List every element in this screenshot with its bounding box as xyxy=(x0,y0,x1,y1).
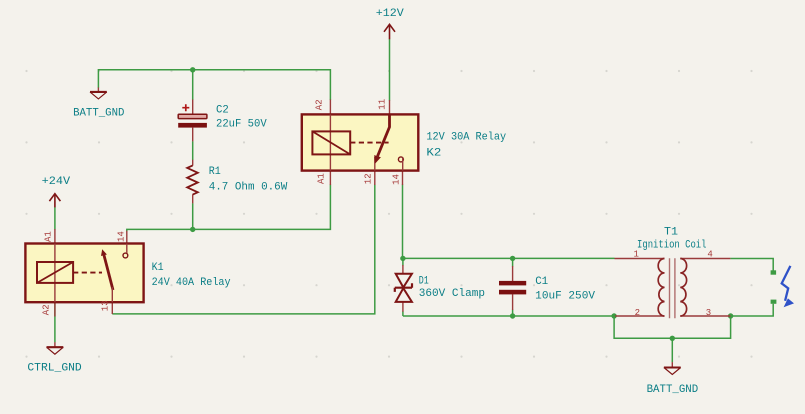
svg-text:K2: K2 xyxy=(426,148,441,160)
svg-text:Ignition Coil: Ignition Coil xyxy=(637,240,707,252)
svg-text:4: 4 xyxy=(707,249,712,259)
svg-text:T1: T1 xyxy=(664,227,678,239)
svg-text:10uF 250V: 10uF 250V xyxy=(535,290,595,302)
svg-text:A1: A1 xyxy=(43,231,53,242)
svg-text:11: 11 xyxy=(377,99,387,110)
svg-text:A2: A2 xyxy=(314,99,324,110)
svg-text:CTRL_GND: CTRL_GND xyxy=(27,363,82,375)
svg-text:D1: D1 xyxy=(419,276,429,288)
svg-text:BATT_GND: BATT_GND xyxy=(73,108,125,120)
svg-text:+24V: +24V xyxy=(42,176,71,188)
svg-text:A1: A1 xyxy=(316,173,326,184)
svg-text:C2: C2 xyxy=(216,104,229,116)
svg-text:12V 30A Relay: 12V 30A Relay xyxy=(426,132,506,144)
svg-text:C1: C1 xyxy=(535,276,548,288)
svg-text:14: 14 xyxy=(116,231,126,242)
svg-text:360V Clamp: 360V Clamp xyxy=(419,288,485,300)
svg-text:22uF 50V: 22uF 50V xyxy=(216,119,267,131)
svg-text:BATT_GND: BATT_GND xyxy=(647,384,699,396)
svg-text:A2: A2 xyxy=(41,304,51,315)
svg-text:12: 12 xyxy=(363,173,373,184)
svg-text:K1: K1 xyxy=(152,262,164,274)
svg-text:3: 3 xyxy=(706,308,711,318)
svg-text:13: 13 xyxy=(100,300,110,311)
svg-text:24V 40A Relay: 24V 40A Relay xyxy=(152,277,231,289)
svg-text:R1: R1 xyxy=(209,166,221,178)
svg-text:+12V: +12V xyxy=(376,8,404,20)
svg-text:14: 14 xyxy=(391,174,401,185)
svg-text:1: 1 xyxy=(634,249,639,259)
svg-text:2: 2 xyxy=(635,308,640,318)
svg-text:4.7 Ohm 0.6W: 4.7 Ohm 0.6W xyxy=(209,181,288,193)
